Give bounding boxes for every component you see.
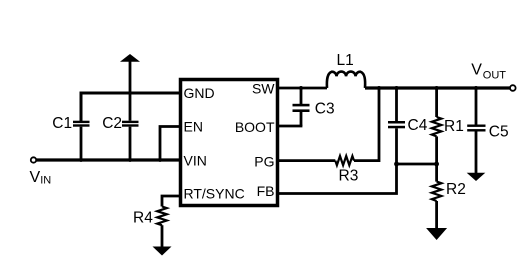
capacitor C3 xyxy=(293,88,335,126)
ground (R4) xyxy=(153,247,172,256)
node FB junction xyxy=(394,162,399,167)
junction C2-VIN rail xyxy=(128,158,132,162)
terminal VOUT xyxy=(510,85,516,91)
svg-text:C2: C2 xyxy=(102,115,122,132)
junction EN-VIN rail xyxy=(158,158,162,162)
capacitor C1 xyxy=(52,92,89,161)
svg-text:R3: R3 xyxy=(339,168,359,185)
wire R3 pull-up vertical xyxy=(354,88,379,161)
svg-text:V: V xyxy=(471,62,482,79)
junction R3-VOUT rail xyxy=(377,86,381,90)
capacitor C5 xyxy=(467,88,508,174)
ground (R2) xyxy=(426,228,447,240)
wire RT/SYNC branch xyxy=(162,196,180,207)
resistor R4 xyxy=(133,207,167,227)
wire R4 to ground xyxy=(161,225,164,247)
junction C4-VOUT rail xyxy=(395,86,399,90)
wire VIN rail xyxy=(37,158,181,161)
svg-text:V: V xyxy=(30,169,41,186)
svg-text:R1: R1 xyxy=(444,118,464,135)
wire R2 to ground xyxy=(435,201,438,229)
capacitor C4 xyxy=(388,88,428,164)
svg-text:GND: GND xyxy=(184,85,215,101)
svg-text:FB: FB xyxy=(257,183,275,199)
wire GND rail xyxy=(81,93,180,122)
wire FB xyxy=(279,164,397,194)
svg-text:R2: R2 xyxy=(446,181,466,198)
svg-text:IN: IN xyxy=(40,175,51,187)
wire BOOT xyxy=(279,125,302,128)
svg-text:C1: C1 xyxy=(52,115,72,132)
svg-text:PG: PG xyxy=(254,153,274,169)
svg-text:R4: R4 xyxy=(133,210,153,227)
inductor L1 xyxy=(327,72,365,88)
capacitor C2 xyxy=(102,61,138,160)
wire PG xyxy=(279,159,335,162)
junction R1-VOUT rail xyxy=(435,86,439,90)
junction SW-C3 xyxy=(299,86,303,90)
svg-text:L1: L1 xyxy=(337,52,354,69)
svg-text:C5: C5 xyxy=(489,123,509,140)
svg-text:SW: SW xyxy=(252,81,275,97)
wire EN branch xyxy=(160,127,180,161)
wire VOUT rail xyxy=(365,86,510,89)
svg-text:RT/SYNC: RT/SYNC xyxy=(184,186,245,202)
terminal VIN xyxy=(31,157,36,162)
ground (C5) xyxy=(467,173,486,181)
resistor R2 xyxy=(432,164,466,201)
junction C1-VIN rail xyxy=(79,158,83,162)
node R1-R2 junction xyxy=(434,162,439,167)
junction C5-VOUT rail xyxy=(474,86,478,90)
power arrow (up) xyxy=(120,54,140,62)
wire SW xyxy=(279,87,327,90)
svg-text:EN: EN xyxy=(184,119,203,135)
resistor R3 xyxy=(335,156,358,185)
svg-text:C4: C4 xyxy=(408,117,428,134)
svg-text:BOOT: BOOT xyxy=(235,119,275,135)
wire FB link xyxy=(397,163,437,166)
svg-text:VIN: VIN xyxy=(184,152,207,168)
svg-text:OUT: OUT xyxy=(483,70,507,82)
op-amp U1 (regulator IC) xyxy=(181,80,278,206)
svg-text:C3: C3 xyxy=(315,100,335,117)
resistor R1 xyxy=(432,88,464,164)
